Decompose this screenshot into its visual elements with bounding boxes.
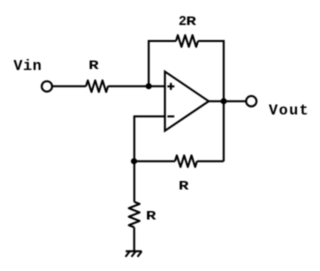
svg-text:Vin: Vin bbox=[14, 58, 43, 75]
svg-text:Vout: Vout bbox=[269, 103, 310, 120]
svg-text:R: R bbox=[186, 14, 196, 29]
svg-text:R: R bbox=[89, 58, 99, 73]
svg-text:R: R bbox=[179, 179, 189, 194]
svg-text:R: R bbox=[146, 209, 156, 224]
